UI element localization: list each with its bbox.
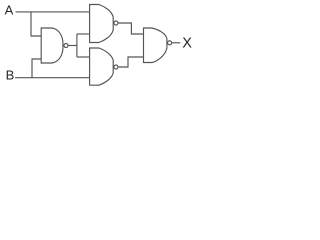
svg-text:B: B (6, 67, 15, 82)
svg-text:X: X (182, 36, 192, 52)
svg-text:A: A (5, 2, 14, 17)
